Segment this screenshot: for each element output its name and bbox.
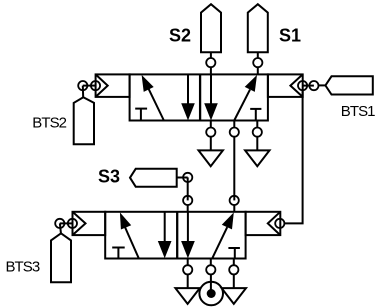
exhaust triangle V1 port 5: [199, 150, 223, 166]
wire V2 bottom port 5: [187, 259, 189, 266]
wire circle to BTS1 flag: [319, 84, 326, 86]
wire between circles: [303, 85, 314, 87]
wire to exhaust: [187, 274, 189, 288]
svg-text:BTS3: BTS3: [6, 259, 40, 276]
wire to exhaust: [256, 137, 258, 151]
valve V1 left box diagonal flow arrow: [142, 75, 164, 121]
wire V1 bottom port 1: [233, 121, 235, 128]
node port 3 circle V2: [229, 265, 238, 274]
node port 5 circle V2: [183, 265, 192, 274]
wire down to port circle: [187, 177, 189, 200]
wire port circle to valve V1: [210, 67, 212, 74]
wire into valve V2: [187, 205, 189, 212]
valve V2 position divider: [176, 212, 178, 259]
valve V2 left box blocked port T: [112, 248, 125, 259]
wire into valve V2: [233, 205, 235, 212]
node port 2 circle V2 top: [230, 196, 239, 205]
wire to exhaust: [210, 137, 212, 151]
node label circle BTS1: [309, 81, 318, 90]
valve V2 right box diagonal flow arrow: [212, 212, 234, 258]
pilot actuator right of valve V2: [246, 212, 281, 235]
label flag BTS2: [74, 97, 94, 144]
pilot actuator left of valve V2: [73, 212, 106, 235]
valve V2 body: [105, 212, 245, 259]
valve V1 body: [130, 74, 268, 120]
node label circle S3: [183, 173, 192, 182]
valve V2 left box diagonal flow arrow: [120, 212, 139, 258]
wire between circles: [60, 222, 73, 224]
valve V1 right box down flow arrow: [204, 74, 218, 120]
label flag S3: [130, 169, 177, 187]
node pilot port circle on V1 right pilot: [298, 81, 307, 90]
valve V2 right box blocked port T: [228, 248, 240, 258]
valve V2 left box down flow arrow: [158, 212, 172, 258]
wire V1 port 1 down to V2 port 2 circle: [233, 137, 235, 201]
svg-text:S3: S3: [98, 167, 120, 187]
wire V1 bottom port 3: [256, 121, 258, 128]
wire to exhaust: [233, 274, 235, 288]
valve V1 right box blocked port T: [250, 109, 261, 121]
node port 4 circle V2 top: [183, 196, 192, 205]
valve V2 right box down flow arrow: [181, 212, 195, 258]
node pilot port circle on V2 right pilot: [275, 219, 284, 228]
valve V1 left box down flow arrow: [181, 74, 195, 120]
valve V1 left box blocked port T: [135, 109, 147, 121]
node port 4 circle (valve V1 top left): [206, 58, 215, 67]
svg-text:BTS1: BTS1: [341, 103, 375, 120]
node pilot port circle on V1 left pilot: [91, 81, 100, 90]
exhaust triangle V2 port 5: [175, 288, 199, 304]
wire to air source: [210, 274, 212, 293]
wire V1 bottom port 5: [210, 121, 212, 128]
exhaust triangle V1 port 3: [245, 150, 269, 166]
wire port circle to valve V1: [257, 67, 259, 74]
compressed air source: [199, 282, 223, 306]
label flag BTS1: [325, 76, 372, 94]
wire S3 flag to circle: [177, 177, 188, 179]
wire between circles: [83, 85, 96, 87]
pilot actuator right of valve V1: [268, 74, 303, 97]
label flag S1: [248, 4, 268, 52]
node port 1 circle V2: [206, 265, 215, 274]
valve V1 position divider: [199, 74, 201, 120]
node port 3 circle V1: [253, 128, 262, 137]
wire V1 right pilot down to V2 right pilot: [284, 90, 302, 223]
wire circle to BTS2 flag: [82, 86, 84, 98]
node pilot port circle on V2 left pilot: [68, 219, 77, 228]
exhaust triangle V2 port 3: [222, 288, 246, 304]
wire S2 flag to port circle: [210, 52, 212, 58]
node port 2 circle (valve V1 top right): [253, 58, 262, 67]
wire V2 bottom port 1: [210, 259, 212, 266]
node label circle BTS3: [55, 219, 64, 228]
svg-text:S1: S1: [279, 26, 301, 46]
svg-text:BTS2: BTS2: [32, 114, 66, 131]
label flag S2: [201, 4, 221, 52]
valve V1 right box diagonal flow arrow: [234, 75, 257, 121]
node label circle BTS2: [78, 81, 87, 90]
wire V2 bottom port 3: [233, 259, 235, 266]
svg-text:S2: S2: [169, 26, 191, 46]
label flag BTS3: [51, 233, 71, 282]
wire S1 flag to port circle: [257, 52, 259, 58]
node port 1 circle V1: [230, 128, 239, 137]
pilot actuator left of valve V1: [96, 74, 130, 97]
wire circle to BTS3 flag: [60, 223, 61, 234]
node port 5 circle V1: [206, 128, 215, 137]
